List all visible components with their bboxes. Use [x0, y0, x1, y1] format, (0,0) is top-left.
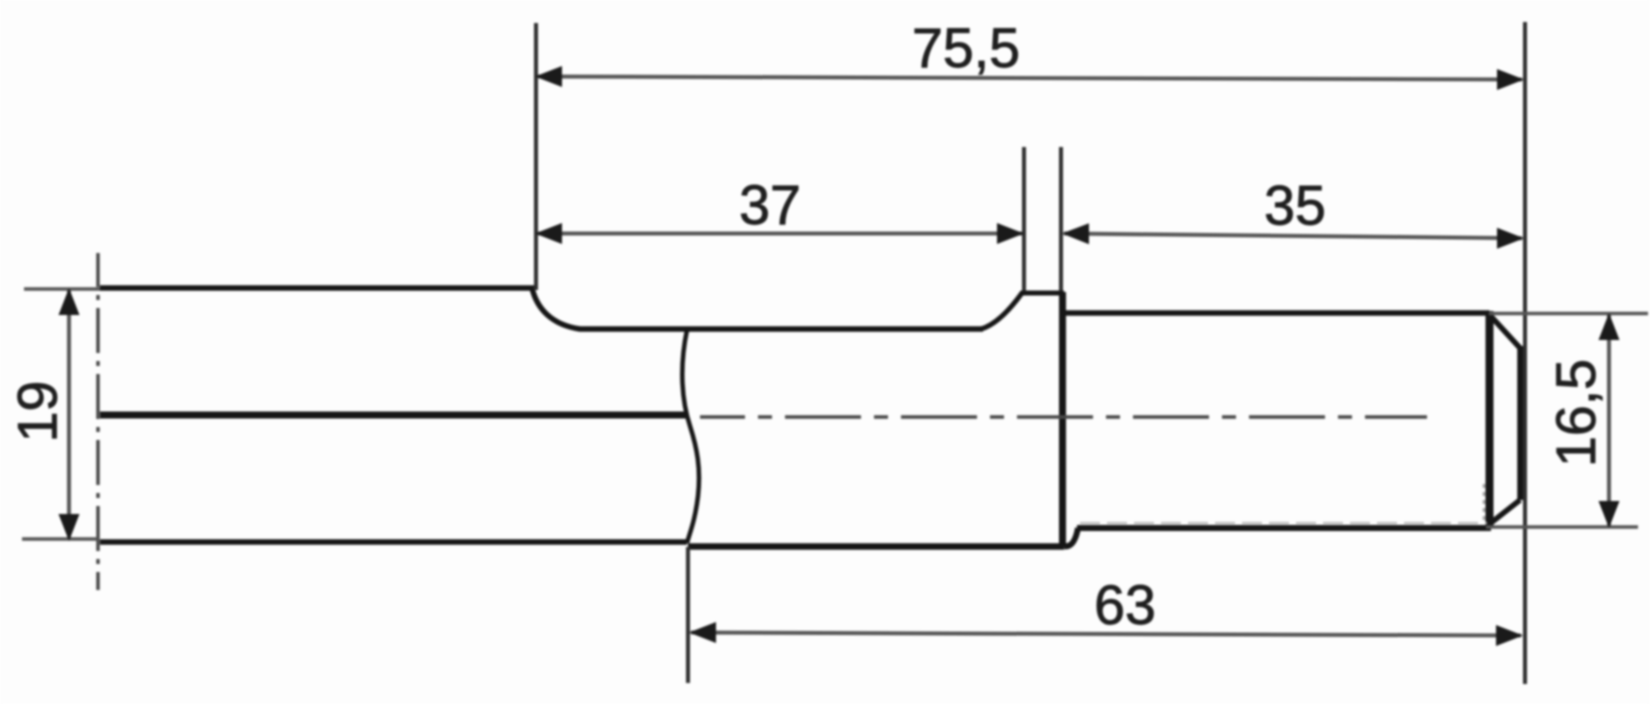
svg-text:35: 35 [1264, 175, 1326, 237]
wire: neck fillet up to collar top [981, 293, 1064, 329]
wire: extension line x688 below break [686, 547, 690, 683]
node: horizontal dash-dot centerline [700, 415, 1427, 419]
node: arrow left 75,5 [535, 66, 562, 87]
wire: chamfer bottom diagonal [1487, 500, 1520, 526]
wire: tick line bottom right for 16,5 [1486, 525, 1638, 529]
node: arrow left 37 [535, 223, 562, 244]
wire: right section bottom edge [1077, 525, 1491, 531]
node: arrow up 16,5 [1599, 313, 1620, 340]
svg-text:16,5: 16,5 [1545, 359, 1607, 467]
node: vertical dash-dot line at hex left end [96, 253, 100, 590]
wire: dimension line 16,5 vertical [1607, 315, 1611, 526]
svg-text:75,5: 75,5 [912, 17, 1020, 79]
wire: extension line x1524 [1523, 22, 1527, 684]
wire: dimension line 75,5 [537, 77, 1522, 80]
node: arrow right 35 [1497, 228, 1524, 249]
node: arrow left 63 [689, 622, 716, 643]
wire: collar right face vertical [1059, 292, 1066, 546]
node: arrow down 16,5 [1599, 501, 1620, 528]
svg-text:63: 63 [1094, 574, 1156, 636]
wire: tick line top left for 19 [24, 287, 100, 291]
wire: extension line x1024 [1022, 147, 1026, 291]
wire: right end face vertical [1486, 311, 1494, 526]
wire: tick line top right for 16,5 [1489, 312, 1648, 316]
wire: faint dotted vertical near end face [1483, 484, 1486, 521]
wire: hex shaft middle edge line [100, 412, 686, 419]
wire: dimension line 63 [691, 633, 1521, 636]
wire: tick line bottom left for 19 [22, 537, 98, 541]
node: arrow left 35 [1062, 223, 1089, 244]
node: arrow right 37 [997, 223, 1024, 244]
wire: chamfer top diagonal [1487, 312, 1520, 348]
wire: dimension line 19 vertical [67, 290, 71, 539]
wire: bottom step fillet [1064, 528, 1078, 547]
node: arrow down 19 [59, 514, 80, 541]
wire: hex shaft top edge with fillet to neck [100, 288, 983, 329]
wire: right section top edge [1064, 310, 1489, 316]
wire: extension line x536 [534, 23, 538, 290]
node: arrow right 63 [1496, 625, 1523, 646]
wire: dimension line 37 [537, 232, 1022, 236]
wire: break S-curve [682, 330, 699, 543]
wire: faint hidden line above right bottom edge [1080, 522, 1487, 524]
wire: middle section bottom edge [688, 543, 1064, 550]
wire: dimension line 35 [1064, 234, 1522, 239]
wire: hex shaft bottom edge [100, 539, 687, 545]
node: arrow right 75,5 [1497, 69, 1524, 90]
svg-text:19: 19 [7, 381, 69, 443]
wire: extension line x1061 [1059, 147, 1063, 291]
node: arrow up 19 [59, 288, 80, 315]
svg-text:37: 37 [739, 174, 801, 236]
wire: chamfer edge vertical [1517, 346, 1524, 500]
